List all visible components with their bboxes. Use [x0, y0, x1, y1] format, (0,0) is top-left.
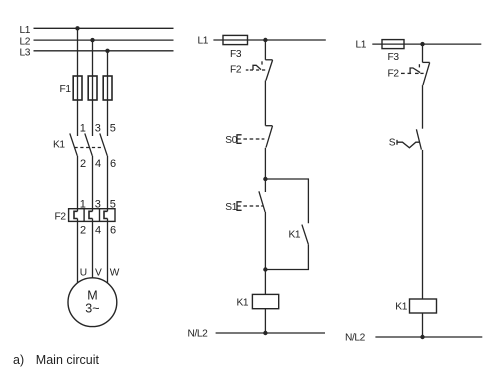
wire contact 6 to F2: [107, 156, 109, 212]
svg-text:W: W: [110, 267, 120, 278]
overload heater element pole 1: [74, 211, 78, 218]
svg-text:K1: K1: [289, 230, 301, 241]
svg-text:L1: L1: [20, 25, 31, 36]
svg-text:L2: L2: [20, 37, 31, 48]
switch S NO contact: [416, 129, 421, 149]
fuse F1 pole 1: [77, 76, 79, 100]
wire contact 4 to F2: [92, 156, 94, 212]
wire K1 aux to junction: [265, 244, 308, 269]
wire junction to F2 contact: [264, 40, 266, 60]
F2 trip linkage (dashed + thermal symbol): [246, 69, 249, 71]
svg-text:F2: F2: [388, 69, 400, 80]
wire F2 to motor W: [107, 219, 109, 284]
svg-text:N/L2: N/L2: [188, 328, 209, 339]
svg-text:K1: K1: [395, 302, 407, 313]
svg-text:3~: 3~: [85, 302, 99, 316]
wire branch to K1 aux: [265, 179, 308, 223]
wire L1 middle: [213, 39, 325, 41]
svg-text:K1: K1: [237, 298, 249, 309]
overload heater element pole 2: [89, 211, 93, 218]
F2 NC contact (middle): [265, 59, 272, 61]
svg-text:F1: F1: [60, 84, 72, 95]
wire S to coil (right): [422, 150, 424, 299]
junction (right top): [420, 42, 424, 46]
svg-text:M: M: [87, 288, 97, 302]
wire coil to N/L2 (right): [422, 313, 424, 337]
svg-text:S0: S0: [225, 135, 237, 146]
junction on L2: [90, 38, 94, 42]
junction on L3: [105, 49, 109, 53]
contactor coil K1 (middle): [252, 294, 278, 308]
svg-text:S1: S1: [225, 202, 237, 213]
overload relay F2 box: [69, 209, 115, 222]
svg-text:1: 1: [80, 123, 86, 135]
motor M1 circle: [68, 278, 117, 327]
fuse F3 (right): [382, 40, 404, 49]
junction on L1: [75, 26, 79, 30]
svg-text:K1: K1: [53, 139, 65, 150]
S0 NC contact: [265, 125, 272, 127]
wire contact 2 to F2: [77, 156, 79, 212]
wire junction to F2 contact (right): [422, 44, 424, 62]
svg-text:F2: F2: [230, 64, 242, 75]
svg-text:S: S: [389, 137, 396, 148]
wire fuse3 to contact 5: [107, 100, 109, 136]
svg-text:N/L2: N/L2: [345, 332, 366, 343]
wire L3 phase line: [34, 50, 174, 52]
overload heater element pole 3: [104, 211, 108, 218]
wire S0 to junction: [264, 148, 266, 179]
wire F2 contact to S0: [264, 81, 266, 126]
svg-text:L3: L3: [20, 47, 31, 58]
wire L3 to fuse 3: [107, 51, 109, 76]
wire L1 right: [372, 43, 481, 45]
svg-text:a): a): [13, 353, 24, 367]
svg-text:F2: F2: [55, 212, 67, 223]
junction (middle top): [263, 38, 267, 42]
wire L1 to fuse 1: [77, 28, 79, 76]
junction (right bottom): [420, 335, 424, 339]
contactor K1 contact blade pole 1: [70, 133, 78, 155]
contactor K1 contact blade pole 2: [85, 133, 93, 155]
wire N/L2 right: [375, 336, 482, 338]
F2 NC contact (right): [423, 61, 430, 63]
wire L2 phase line: [34, 39, 174, 41]
svg-text:V: V: [95, 267, 102, 278]
svg-text:F3: F3: [388, 52, 400, 63]
wire L1 phase line: [34, 27, 174, 29]
svg-text:U: U: [80, 267, 87, 278]
wire junction to coil: [264, 270, 266, 295]
junction (below S1): [263, 267, 267, 271]
wire N/L2 middle: [216, 332, 325, 334]
svg-text:F3: F3: [230, 49, 242, 60]
S0 linkage dashes: [243, 138, 247, 140]
svg-text:6: 6: [110, 158, 116, 170]
fuse F1 pole 2: [92, 76, 94, 100]
svg-text:4: 4: [95, 158, 101, 170]
wire F2 to motor U: [77, 219, 79, 284]
F2 trip linkage (right): [401, 72, 405, 74]
svg-text:3: 3: [95, 123, 101, 135]
wire F2 contact to S (right): [422, 85, 424, 129]
fuse F1 pole 3: [107, 76, 109, 100]
svg-text:L1: L1: [198, 36, 209, 47]
svg-text:5: 5: [110, 123, 116, 135]
svg-text:6: 6: [110, 225, 116, 237]
wire F2 to motor V: [92, 219, 94, 279]
svg-text:4: 4: [95, 225, 101, 237]
svg-text:L1: L1: [356, 40, 367, 51]
wire coil to N/L2: [264, 309, 266, 333]
contactor K1 mechanical link (dashed): [75, 147, 103, 149]
contactor K1 contact blade pole 3: [100, 133, 108, 155]
svg-text:Main circuit: Main circuit: [36, 353, 100, 367]
svg-text:2: 2: [80, 158, 86, 170]
S0 actuator E glyph: [237, 135, 242, 144]
wire L2 to fuse 2: [92, 40, 94, 76]
fuse F3 (middle): [223, 35, 248, 44]
wire fuse2 to contact 3: [92, 100, 94, 136]
switch S manual actuator: [397, 140, 420, 148]
wire fuse1 to contact 1: [77, 100, 79, 136]
K1 auxiliary NO contact: [302, 225, 308, 245]
S1 NO contact: [264, 179, 266, 192]
contactor coil K1 (right): [410, 299, 437, 313]
svg-text:2: 2: [80, 225, 86, 237]
junction (middle bottom): [263, 331, 267, 335]
junction (above S1): [263, 177, 267, 181]
S1 actuator E glyph: [237, 202, 242, 211]
wire S1 to junction: [264, 212, 266, 270]
S1 linkage dashes: [243, 205, 247, 207]
